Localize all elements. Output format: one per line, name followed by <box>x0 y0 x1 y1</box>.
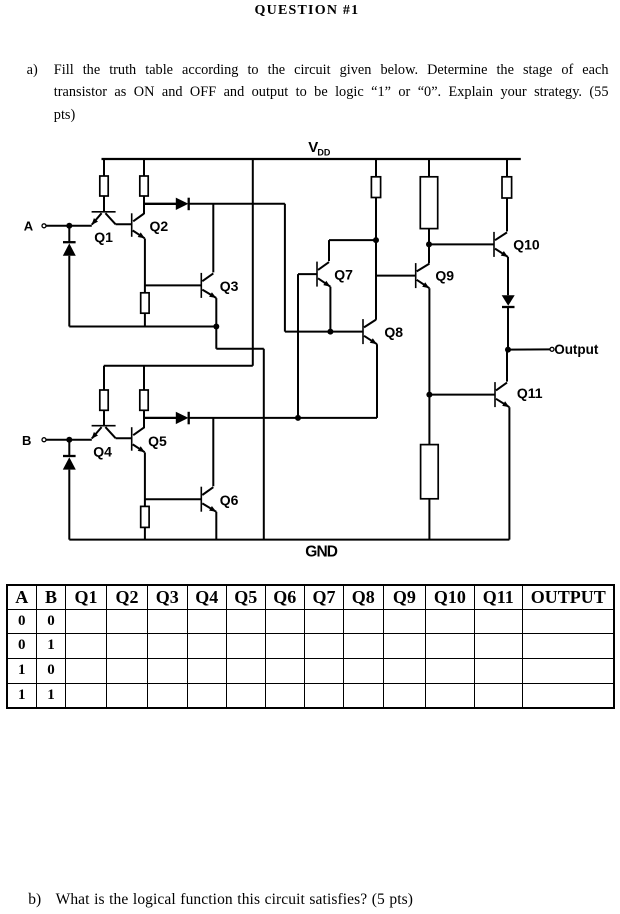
paragraph b) text <box>56 892 413 908</box>
wire Q8 collector node to Q9 base <box>376 275 416 277</box>
transistor Q1 <box>92 212 116 245</box>
node GND label <box>305 544 337 561</box>
node A input <box>24 219 46 234</box>
diode D3 (level shift) <box>502 295 515 349</box>
node Output <box>505 342 599 357</box>
svg-text:Q3: Q3 <box>220 278 239 294</box>
diode DB (input B clamp) <box>63 440 76 540</box>
wire R4 to Q4 collector <box>103 410 105 425</box>
svg-text:Q9: Q9 <box>435 267 454 283</box>
svg-text:Q2: Q2 <box>150 218 169 234</box>
wire Q4 base to Q5 base <box>116 437 132 439</box>
wire Q3 collector to D1 line <box>212 204 214 273</box>
wire Q7 emitter to Q8 base <box>327 287 363 335</box>
wire Q7 base vertical <box>298 274 317 418</box>
svg-text:Q7: Q7 <box>334 266 353 282</box>
svg-text:Q5: Q5 <box>148 433 167 449</box>
paragraph a) label <box>27 63 38 77</box>
svg-text:DD: DD <box>317 147 330 157</box>
svg-text:A: A <box>24 219 34 234</box>
svg-text:Q4: Q4 <box>93 443 112 459</box>
node Q7 base junction <box>295 415 301 421</box>
resistor R5 <box>140 390 148 410</box>
wire gate-B rail <box>104 365 253 367</box>
wire VDD to gate-B rail <box>252 159 254 366</box>
wire Q2 emitter down through R3 <box>144 239 146 293</box>
wire VDD to R1 <box>103 159 105 176</box>
wire Q10 emitter to D3 <box>507 257 509 295</box>
wire VDD to R9 <box>506 159 508 177</box>
transistor Q11 <box>495 382 543 407</box>
wire R9 to Q10 collector <box>506 198 508 231</box>
node gate-A bottom junction <box>213 324 219 330</box>
svg-text:Q11: Q11 <box>517 385 543 401</box>
paragraph a) line 1 <box>54 63 609 77</box>
wire Q11 emitter to GND <box>508 407 510 539</box>
transistor Q3 <box>201 273 238 298</box>
wire R3 to gate-A bottom <box>144 313 146 326</box>
wire gate-A bottom <box>69 326 216 328</box>
resistor R1 <box>100 176 108 196</box>
wire B to Q4 emitter <box>46 437 92 443</box>
wire Q5 emitter to Q6 base <box>145 498 201 500</box>
title <box>255 4 360 18</box>
resistor R4 <box>100 390 108 410</box>
wire Q7 collector up and right <box>329 240 376 261</box>
resistor R2 <box>140 176 148 196</box>
wire D1 to Q8 base (down and right) <box>285 204 331 332</box>
wire VDD to R8 <box>428 159 430 177</box>
wire Q2 emitter to Q3 base <box>145 284 201 286</box>
wire R8 to Q9 collector <box>426 229 432 264</box>
resistor R3 <box>141 293 149 313</box>
transistor Q10 <box>494 232 540 257</box>
wire VDD to R2 <box>143 159 145 176</box>
resistor R8 <box>420 177 437 229</box>
transistor Q9 <box>416 263 455 288</box>
wire Q5 emitter down through R6 <box>144 452 146 506</box>
diode D2 (gate B output) <box>144 412 377 425</box>
wire Q11 collector to Output node <box>506 350 508 382</box>
wire Q6 emitter to GND <box>215 512 217 540</box>
resistor R7 <box>371 177 380 198</box>
wire Q8 emitter down and left <box>376 344 378 418</box>
wire VDD to R7 <box>375 159 377 177</box>
resistor R10 <box>421 445 439 499</box>
node Q7 collector junction <box>373 237 379 243</box>
svg-text:Q1: Q1 <box>94 229 113 245</box>
paragraph b) label <box>28 892 41 908</box>
transistor Q5 <box>132 427 167 452</box>
wire gate-B rail to R4 <box>103 366 105 390</box>
svg-text:Q10: Q10 <box>513 237 540 253</box>
wire A to Q1 emitter <box>46 223 92 229</box>
svg-text:Output: Output <box>554 342 599 357</box>
diode DA (input A clamp) <box>63 226 76 327</box>
transistor Q6 <box>201 487 238 512</box>
wire Q6 collector to D2 line <box>212 418 214 486</box>
wire Q9 emitter down through R10 <box>428 288 430 444</box>
wire Q11 base <box>429 394 495 396</box>
transistor Q2 <box>132 213 169 238</box>
circuit schematic <box>0 0 620 580</box>
wire GND rail <box>69 539 509 541</box>
wire Q3 emitter chain to GND-side <box>216 298 263 539</box>
wire R5 to Q5 collector node <box>143 410 145 428</box>
resistor R6 <box>141 506 149 527</box>
wire R7 down to Q8 collector <box>375 198 377 320</box>
truth table <box>6 584 616 710</box>
transistor Q7 <box>317 262 353 287</box>
power rail VDD <box>102 158 521 160</box>
node B input <box>22 433 46 448</box>
transistor Q4 <box>92 426 116 460</box>
wire R10 to GND <box>428 499 430 540</box>
wire R1 to Q1 collector <box>103 196 105 212</box>
svg-text:GND: GND <box>305 544 337 561</box>
wire gate-B rail to R5 <box>143 366 145 390</box>
wire Q9/R8 node to Q10 base <box>429 243 494 245</box>
wire R2 to Q2 collector node <box>143 196 145 214</box>
svg-text:Q6: Q6 <box>220 492 239 508</box>
diode D1 (gate A output) <box>144 198 285 211</box>
node Q11 base junction <box>426 392 432 398</box>
svg-text:Q8: Q8 <box>384 324 403 340</box>
resistor R9 <box>502 177 512 198</box>
paragraph a) line 3 <box>54 108 75 122</box>
wire R6 to GND <box>144 527 146 539</box>
svg-text:B: B <box>22 433 31 448</box>
transistor Q8 <box>363 319 403 344</box>
paragraph a) line 2 <box>54 85 609 99</box>
wire Q1 base to Q2 base <box>116 223 132 225</box>
node VDD label <box>308 139 331 157</box>
